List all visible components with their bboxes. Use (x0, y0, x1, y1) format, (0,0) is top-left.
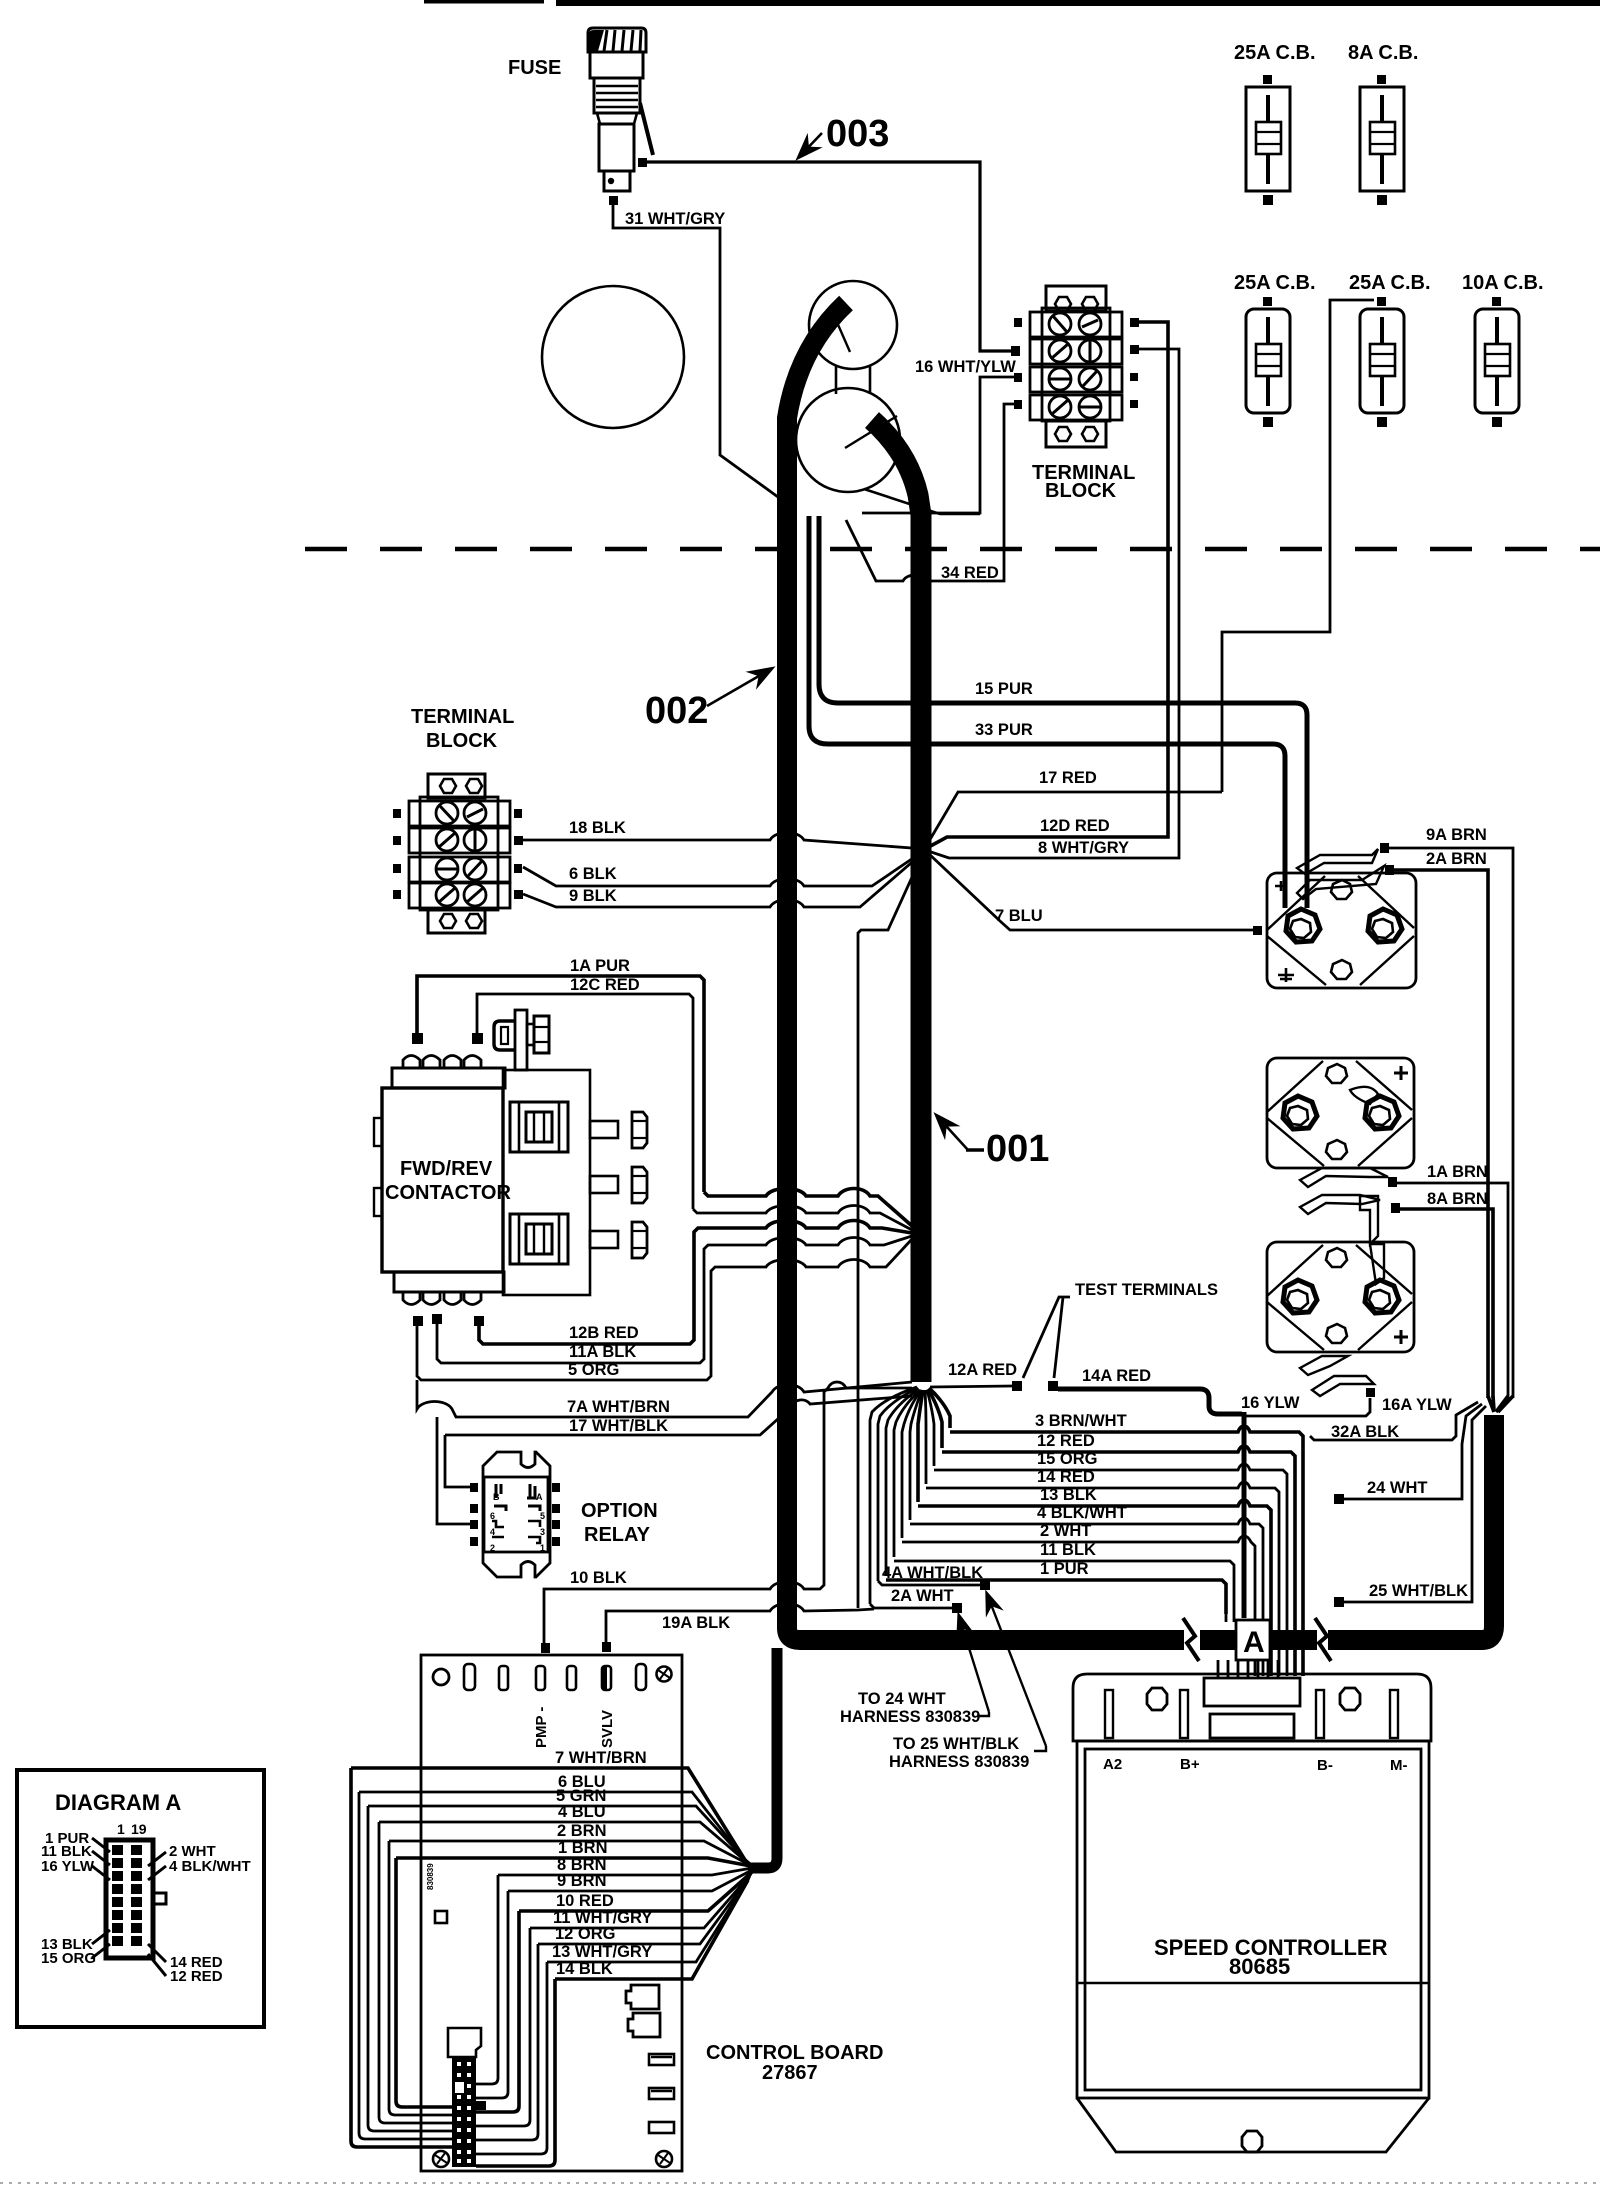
svg-text:TO 25 WHT/BLK: TO 25 WHT/BLK (893, 1735, 1019, 1753)
fuse FUSE (588, 28, 653, 191)
wire 8A BRN (1400, 1209, 1493, 1398)
labels control board wires (552, 1749, 652, 1978)
lightning break symbol (left of connector A) (1183, 1618, 1199, 1661)
test terminal 2 (1048, 1381, 1058, 1391)
wire 1 BRN (396, 1858, 751, 1866)
svg-text:25 WHT/BLK: 25 WHT/BLK (1369, 1582, 1468, 1600)
svg-text:BLOCK: BLOCK (1045, 480, 1117, 502)
svg-text:8A BRN: 8A BRN (1427, 1190, 1488, 1208)
keyhole console cutout outline (796, 281, 980, 514)
diagram A connector (106, 1840, 166, 1958)
wire 17 WHT/BLK (445, 1396, 912, 1435)
svg-text:B-: B- (1317, 1757, 1333, 1774)
fan wire 4 BLK/WHT (910, 1390, 922, 1520)
svg-text:SVLV: SVLV (599, 1710, 616, 1748)
board small square (435, 1911, 447, 1923)
svg-text:12A RED: 12A RED (948, 1361, 1017, 1379)
svg-text:25A C.B.: 25A C.B. (1234, 42, 1316, 64)
wire 1A BRN (1397, 1183, 1508, 1398)
svg-text:4 BLK/WHT: 4 BLK/WHT (1037, 1504, 1127, 1522)
circuit breaker 25A C.B. (top row left) (1246, 75, 1290, 205)
wire 15 PUR thick (819, 516, 1307, 908)
fan wire 12 RED (928, 1389, 942, 1448)
svg-text:12D RED: 12D RED (1040, 817, 1110, 835)
wire 32A BLK (1310, 1402, 1478, 1440)
harness 002 thick run (787, 303, 1184, 1640)
svg-text:32A BLK: 32A BLK (1331, 1423, 1399, 1441)
wire 12A RED to test terminal (930, 1386, 1012, 1387)
svg-text:2 WHT: 2 WHT (1040, 1522, 1091, 1540)
svg-text:TEST TERMINALS: TEST TERMINALS (1075, 1281, 1218, 1299)
svg-text:17 WHT/BLK: 17 WHT/BLK (569, 1417, 668, 1435)
svg-text:15 PUR: 15 PUR (975, 680, 1033, 698)
wire 2A BRN (1394, 870, 1488, 1398)
wire 33 PUR thick (809, 516, 1285, 908)
speed controller top plate (1073, 1674, 1431, 1741)
svg-text:80685: 80685 (1229, 1954, 1290, 1979)
label 001 with leader arrow (937, 1116, 1049, 1170)
svg-text:4 BLU: 4 BLU (558, 1803, 606, 1821)
svg-text:1: 1 (117, 1821, 125, 1837)
wire to option relay pin 1 (445, 1435, 470, 1487)
leader arrow to 2A WHT terminal (959, 1616, 989, 1716)
wire group 5 ORG leg (417, 1239, 912, 1380)
contactor stud bolt 2 (590, 1167, 647, 1203)
top border bar (424, 0, 1600, 6)
wire 13 BLK (918, 1500, 1271, 1676)
fan wire 3 BRN/WHT (929, 1388, 950, 1428)
circuit breaker 10A C.B. (second row right) (1475, 297, 1519, 427)
svg-text:7 BLU: 7 BLU (995, 907, 1043, 925)
dashed console boundary line (305, 547, 1600, 552)
board right connectors (626, 1985, 660, 2037)
contactor stud bolt 1 (590, 1112, 647, 1148)
svg-text:CONTROL BOARD: CONTROL BOARD (706, 2042, 883, 2064)
wire group 12B RED leg (479, 1221, 912, 1345)
svg-text:4A WHT/BLK: 4A WHT/BLK (882, 1564, 983, 1582)
label TO 24 WHT HARNESS 830839 (840, 1690, 980, 1726)
bundle lines into connector A (1226, 1614, 1234, 1622)
svg-text:25A C.B.: 25A C.B. (1349, 272, 1431, 294)
wire 7 BLU branch down left (858, 853, 923, 1608)
circuit breaker 25A C.B. (second row middle) (1360, 297, 1404, 427)
svg-text:12 RED: 12 RED (170, 1968, 223, 1985)
wire 4 BLK/WHT (910, 1518, 1263, 1676)
wire 4 BLU (379, 1822, 749, 1864)
svg-text:9A BRN: 9A BRN (1426, 826, 1487, 844)
svg-text:M-: M- (1390, 1757, 1408, 1774)
wire 5 GRN (368, 1806, 748, 1863)
harness 001 thick run (872, 420, 921, 1382)
wire 7 WHT/BRN (351, 1768, 752, 1866)
fan wire 14 RED (925, 1390, 926, 1484)
connector A box (1236, 1620, 1270, 1660)
spring contact arm lower (16A YLW) (1300, 1356, 1375, 1397)
svg-text:8 WHT/GRY: 8 WHT/GRY (1038, 839, 1129, 857)
svg-text:002: 002 (645, 690, 708, 732)
steering column circle (left) (542, 286, 684, 428)
wire 1 PUR (886, 1580, 1226, 1614)
wire 3 BRN/WHT (950, 1426, 1303, 1676)
fan wire 1 PUR (886, 1389, 919, 1576)
wire 2 BRN (389, 1841, 750, 1865)
board lower connector block (448, 2028, 486, 2167)
wire to option relay pin 3 (437, 1417, 470, 1524)
spring contact arm 9A BRN (1297, 843, 1389, 874)
fan wire 13 BLK (918, 1390, 923, 1502)
control board outline (421, 1642, 682, 2171)
bracket link between middle and bottom solenoids (1360, 1196, 1384, 1284)
bottom dotted separator (0, 2182, 1600, 2184)
terminal block (left) (393, 774, 523, 933)
label CONTROL BOARD 27867 (706, 2042, 883, 2084)
wire 14 BLK (555, 1880, 748, 1979)
svg-text:3 BRN/WHT: 3 BRN/WHT (1035, 1412, 1127, 1430)
svg-text:2: 2 (490, 1543, 495, 1553)
label TEST TERMINALS with leaders (1023, 1281, 1218, 1378)
wire 17 RED riser to 25A C.B. (1222, 300, 1374, 792)
wire 8 WHT/GRY (925, 349, 1179, 858)
control board wire wraps (outer) (351, 1768, 452, 2147)
svg-text:CONTACTOR: CONTACTOR (385, 1182, 511, 1204)
svg-text:FWD/REV: FWD/REV (400, 1158, 493, 1180)
svg-text:13 BLK: 13 BLK (1040, 1486, 1097, 1504)
wire 16 WHT/YLW from terminal block to column (862, 377, 1014, 513)
wire 2A WHT to harness terminal (870, 1604, 952, 1608)
svg-text:A: A (536, 1492, 543, 1502)
label FWD/REV CONTACTOR (385, 1158, 511, 1204)
svg-text:001: 001 (986, 1128, 1049, 1170)
solenoid contactor (middle right) (1267, 1058, 1414, 1168)
svg-text:HARNESS 830839: HARNESS 830839 (889, 1753, 1029, 1771)
svg-text:11 BLK: 11 BLK (1040, 1541, 1096, 1559)
svg-text:2 BRN: 2 BRN (557, 1822, 607, 1840)
svg-text:PMP -: PMP - (533, 1707, 550, 1748)
svg-text:10A C.B.: 10A C.B. (1462, 272, 1544, 294)
svg-text:34 RED: 34 RED (941, 564, 999, 582)
svg-text:16A YLW: 16A YLW (1382, 1396, 1452, 1414)
wire 15 ORG (934, 1464, 1287, 1676)
svg-text:16 YLW: 16 YLW (41, 1858, 95, 1875)
option relay (470, 1452, 560, 1577)
svg-text:16 WHT/YLW: 16 WHT/YLW (915, 358, 1016, 376)
wire 13 WHT/GRY (547, 1878, 749, 1962)
svg-text:12 RED: 12 RED (1037, 1432, 1095, 1450)
svg-text:A2: A2 (1103, 1756, 1122, 1773)
wire 11 WHT/GRY (530, 1874, 751, 1928)
svg-text:31 WHT/GRY: 31 WHT/GRY (625, 210, 725, 228)
svg-text:6 BLK: 6 BLK (569, 865, 617, 883)
svg-text:25A C.B.: 25A C.B. (1234, 272, 1316, 294)
wire 24 WHT (1334, 1404, 1482, 1504)
wire 7A WHT/BRN (417, 1380, 912, 1417)
wire 25 WHT/BLK (1334, 1406, 1486, 1607)
svg-text:27867: 27867 (762, 2062, 818, 2084)
wire 12 RED (942, 1446, 1295, 1676)
diagram A leader lines (92, 1838, 166, 1976)
svg-text:12B RED: 12B RED (569, 1324, 639, 1342)
solenoid contactor (bottom right) (1267, 1242, 1414, 1352)
svg-text:17 RED: 17 RED (1039, 769, 1097, 787)
wire 14A RED thick elbow (1058, 1389, 1242, 1414)
right harness V merge diagonals (1488, 1396, 1513, 1412)
fan wire 2 WHT (902, 1390, 921, 1538)
wire 7 BLU to solenoid (928, 853, 1253, 930)
contactor right contact box (503, 1070, 590, 1295)
wire group 11A BLK leg (437, 1236, 912, 1363)
spring contact arm 8A BRN (1300, 1195, 1400, 1214)
wire 34 RED from column to terminal block row 4 (846, 404, 1014, 581)
wire 10 BLK (544, 1382, 912, 1647)
labels A2 B+ B- M- (1103, 1756, 1408, 1774)
svg-text:12C RED: 12C RED (570, 976, 640, 994)
contactor stud bolt 3 (590, 1222, 647, 1258)
fan wire 15 ORG (927, 1390, 934, 1466)
speed controller body (1077, 1741, 1429, 2152)
contactor mounting bracket and bolt (494, 1010, 549, 1070)
wire 16A YLW (1244, 1398, 1370, 1416)
svg-text:14 BLK: 14 BLK (556, 1960, 613, 1978)
leader arrow to 4A WHT/BLK terminal (987, 1594, 1046, 1751)
svg-text:FUSE: FUSE (508, 57, 561, 79)
fan wire to 2A WHT vertical (870, 1387, 917, 1604)
svg-text:33 PUR: 33 PUR (975, 721, 1033, 739)
circuit breaker 8A C.B. (top row right) (1360, 75, 1404, 205)
label OPTION RELAY (581, 1500, 658, 1546)
svg-text:8A C.B.: 8A C.B. (1348, 42, 1418, 64)
harness 002 lower-right continuation to corner (1200, 1415, 1494, 1640)
svg-text:7A WHT/BRN: 7A WHT/BRN (567, 1398, 670, 1416)
wire 9 BLK (523, 851, 925, 907)
wire 003 harness from fuse to terminal block (638, 158, 1011, 351)
fan bundle to harness 002 junction (748, 1648, 777, 1868)
svg-text:830839: 830839 (426, 1863, 435, 1890)
wire 11 BLK (894, 1561, 1234, 1614)
svg-text:14A RED: 14A RED (1082, 1367, 1151, 1385)
svg-text:1 PUR: 1 PUR (1040, 1560, 1089, 1578)
wire 12 ORG (538, 1876, 750, 1944)
svg-text:HARNESS 830839: HARNESS 830839 (840, 1708, 980, 1726)
thick 16 YLW bundle vertical to connector A (1242, 1412, 1247, 1618)
board right slots (649, 2054, 674, 2133)
wire group contactor to harness 001 (1A PUR leg) (704, 1189, 912, 1227)
wire 10 RED (519, 1872, 752, 1911)
svg-text:4 BLK/WHT: 4 BLK/WHT (169, 1858, 251, 1875)
svg-text:6: 6 (490, 1511, 495, 1521)
svg-text:B+: B+ (1180, 1756, 1200, 1773)
svg-text:10 RED: 10 RED (556, 1892, 614, 1910)
svg-text:12 ORG: 12 ORG (555, 1925, 616, 1943)
solenoid contactor (top right) (1267, 873, 1416, 988)
label 002 with leader arrow (645, 669, 771, 732)
svg-text:B: B (493, 1492, 500, 1502)
svg-text:9 BLK: 9 BLK (569, 887, 617, 905)
wire 9 BRN (508, 1870, 752, 1891)
svg-text:13 WHT/GRY: 13 WHT/GRY (552, 1943, 652, 1961)
svg-text:2A BRN: 2A BRN (1426, 850, 1487, 868)
svg-text:RELAY: RELAY (584, 1524, 651, 1546)
svg-text:DIAGRAM A: DIAGRAM A (55, 1790, 181, 1815)
wire 4A WHT/BLK to harness terminal (878, 1581, 980, 1585)
board bottom screws (433, 2151, 672, 2167)
svg-text:BLOCK: BLOCK (426, 730, 498, 752)
wire 6 BLK (523, 850, 925, 886)
svg-text:1 BRN: 1 BRN (558, 1839, 608, 1857)
svg-text:1A BRN: 1A BRN (1427, 1163, 1488, 1181)
label TO 25 WHT/BLK HARNESS 830839 (889, 1735, 1029, 1771)
wire 8 BRN (498, 1868, 752, 1875)
svg-text:7 WHT/BRN: 7 WHT/BRN (555, 1749, 647, 1767)
wire 2 WHT (902, 1536, 1255, 1676)
svg-text:15 ORG: 15 ORG (1037, 1450, 1098, 1468)
terminal block (upper right) (1011, 286, 1139, 447)
svg-text:OPTION: OPTION (581, 1500, 658, 1522)
svg-text:1: 1 (540, 1543, 545, 1553)
svg-text:003: 003 (826, 113, 889, 155)
svg-text:5 ORG: 5 ORG (568, 1361, 619, 1379)
wire 19A BLK (606, 1604, 874, 1647)
wire 18 BLK from left terminal block to junction (523, 833, 925, 850)
svg-text:4: 4 (490, 1527, 495, 1537)
circuit breaker 25A C.B. (second row left) (1246, 297, 1290, 427)
label TERMINAL BLOCK (left) (411, 706, 514, 752)
wire 1A PUR (417, 976, 704, 1192)
svg-text:A: A (1243, 1626, 1265, 1659)
svg-text:19: 19 (131, 1821, 147, 1837)
wire 12D RED (925, 322, 1168, 849)
label 003 with leader arrow (799, 113, 889, 157)
svg-text:2A WHT: 2A WHT (891, 1587, 954, 1605)
wire 31 WHT/GRY from fuse bottom joining harness 002 (609, 196, 778, 497)
FWD/REV contactor body (374, 1033, 505, 1326)
svg-text:5: 5 (540, 1511, 545, 1521)
svg-text:18 BLK: 18 BLK (569, 819, 626, 837)
wire 12C RED (477, 994, 693, 1209)
svg-text:TERMINAL: TERMINAL (411, 706, 514, 728)
lightning break symbol (right of connector A) (1315, 1618, 1331, 1661)
svg-text:16 YLW: 16 YLW (1241, 1394, 1300, 1412)
wire 9A BRN (1389, 848, 1513, 1398)
control board wire fan point (351, 1648, 777, 1979)
svg-text:10 BLK: 10 BLK (570, 1569, 627, 1587)
svg-text:9 BRN: 9 BRN (557, 1872, 607, 1890)
wire 14 RED (926, 1482, 1279, 1676)
spring contact arm 1A BRN (1300, 1168, 1397, 1187)
control board wire wraps (inner) (476, 1875, 555, 2166)
connector A ribbon (1218, 1660, 1278, 1678)
svg-text:19A BLK: 19A BLK (662, 1614, 730, 1632)
svg-text:11A BLK: 11A BLK (569, 1343, 636, 1361)
wire group 12C RED leg (693, 1206, 912, 1231)
label SPEED CONTROLLER 80685 (1154, 1935, 1388, 1979)
wire 6 BLU (359, 1792, 747, 1862)
svg-text:14 RED: 14 RED (1037, 1468, 1095, 1486)
wire 17 RED from junction to circuit breaker riser (925, 792, 1222, 848)
label TERMINAL BLOCK (upper right) (1032, 462, 1135, 502)
harness 001 bottom fan-out (870, 1387, 950, 1604)
fan wire to 4A WHT/BLK vertical (878, 1388, 918, 1581)
spring contact arm 2A BRN (1297, 865, 1394, 899)
svg-text:15 ORG: 15 ORG (41, 1950, 96, 1967)
svg-text:1A PUR: 1A PUR (570, 957, 630, 975)
svg-text:TO 24 WHT: TO 24 WHT (858, 1690, 946, 1708)
svg-text:3: 3 (540, 1527, 545, 1537)
fan wire 11 BLK (894, 1390, 920, 1557)
DIAGRAM A inset box (17, 1770, 264, 2027)
svg-text:24 WHT: 24 WHT (1367, 1479, 1428, 1497)
